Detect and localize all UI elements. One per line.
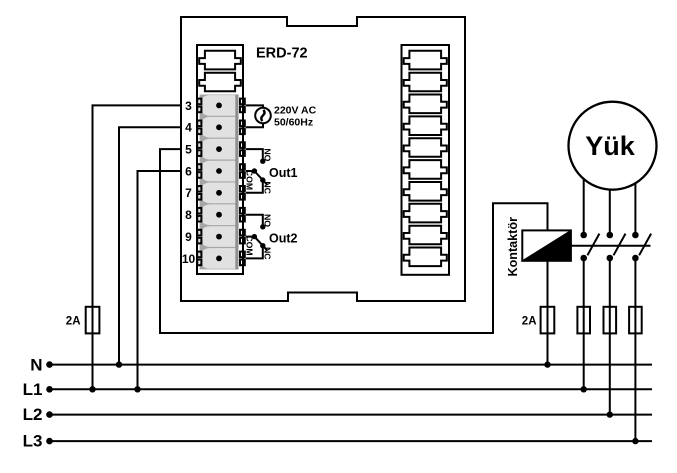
svg-text:L2: L2	[23, 405, 43, 424]
svg-text:ERD-72: ERD-72	[256, 46, 308, 62]
svg-text:NC: NC	[262, 181, 272, 194]
svg-text:3: 3	[185, 99, 192, 113]
svg-text:4: 4	[185, 121, 192, 135]
svg-text:6: 6	[185, 164, 192, 178]
svg-text:Yük: Yük	[585, 131, 636, 161]
svg-text:10: 10	[182, 252, 196, 266]
svg-text:Out1: Out1	[269, 166, 298, 180]
svg-text:L3: L3	[23, 432, 43, 451]
svg-text:8: 8	[185, 208, 192, 222]
svg-text:2A: 2A	[66, 316, 81, 328]
svg-text:NC: NC	[262, 247, 272, 260]
svg-text:COM: COM	[244, 170, 254, 190]
svg-text:COM: COM	[244, 235, 254, 255]
svg-text:9: 9	[185, 230, 192, 244]
svg-text:7: 7	[185, 186, 192, 200]
svg-text:2A: 2A	[522, 316, 537, 328]
svg-text:L1: L1	[23, 380, 43, 399]
svg-text:N: N	[30, 355, 42, 374]
svg-text:5: 5	[185, 143, 192, 157]
svg-text:Out2: Out2	[269, 232, 298, 246]
svg-text:50/60Hz: 50/60Hz	[274, 117, 313, 129]
svg-text:NO: NO	[262, 148, 272, 161]
svg-text:Kontaktör: Kontaktör	[506, 217, 520, 277]
svg-text:NO: NO	[262, 214, 272, 227]
svg-text:220V AC: 220V AC	[274, 105, 317, 117]
